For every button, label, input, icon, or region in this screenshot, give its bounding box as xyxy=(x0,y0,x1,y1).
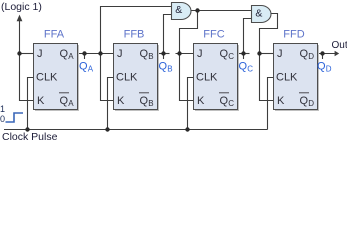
svg-text:Q: Q xyxy=(60,48,69,60)
svg-text:C: C xyxy=(228,99,234,108)
svg-text:CLK: CLK xyxy=(36,72,58,84)
svg-text:A: A xyxy=(68,52,74,61)
svg-text:&: & xyxy=(255,8,262,20)
svg-text:FFD: FFD xyxy=(283,29,304,41)
svg-text:B: B xyxy=(167,64,172,73)
svg-text:FFA: FFA xyxy=(44,29,65,41)
svg-text:CLK: CLK xyxy=(276,72,298,84)
svg-text:J: J xyxy=(117,48,123,60)
svg-text:A: A xyxy=(88,64,94,73)
svg-text:Q: Q xyxy=(159,61,168,73)
svg-text:K: K xyxy=(277,95,285,107)
svg-text:CLK: CLK xyxy=(116,72,138,84)
svg-text:B: B xyxy=(148,99,153,108)
svg-text:J: J xyxy=(197,48,203,60)
svg-text:J: J xyxy=(277,48,283,60)
svg-text:Q: Q xyxy=(317,61,326,73)
svg-text:Q: Q xyxy=(220,95,229,107)
svg-text:K: K xyxy=(37,95,45,107)
svg-text:Q: Q xyxy=(140,95,149,107)
svg-text:Q: Q xyxy=(79,61,88,73)
svg-text:&: & xyxy=(175,4,182,16)
svg-text:Q: Q xyxy=(239,61,248,73)
svg-text:CLK: CLK xyxy=(196,72,218,84)
svg-text:D: D xyxy=(308,52,314,61)
svg-text:Q: Q xyxy=(300,48,309,60)
svg-text:Clock Pulse: Clock Pulse xyxy=(2,131,58,143)
svg-text:B: B xyxy=(148,52,153,61)
svg-text:K: K xyxy=(117,95,125,107)
svg-text:(Logic 1): (Logic 1) xyxy=(1,1,42,13)
svg-text:C: C xyxy=(247,64,253,73)
svg-text:Q: Q xyxy=(220,48,229,60)
svg-text:K: K xyxy=(197,95,205,107)
svg-text:0: 0 xyxy=(0,114,5,124)
svg-text:Q: Q xyxy=(140,48,149,60)
svg-text:A: A xyxy=(68,99,74,108)
svg-text:C: C xyxy=(228,52,234,61)
svg-text:FFB: FFB xyxy=(124,29,145,41)
svg-text:Q: Q xyxy=(300,95,309,107)
svg-text:D: D xyxy=(308,99,314,108)
svg-text:1: 1 xyxy=(0,104,5,114)
svg-text:D: D xyxy=(326,64,332,73)
svg-text:J: J xyxy=(37,48,43,60)
svg-text:Out: Out xyxy=(332,40,347,51)
svg-text:FFC: FFC xyxy=(203,29,224,41)
svg-text:Q: Q xyxy=(60,95,69,107)
